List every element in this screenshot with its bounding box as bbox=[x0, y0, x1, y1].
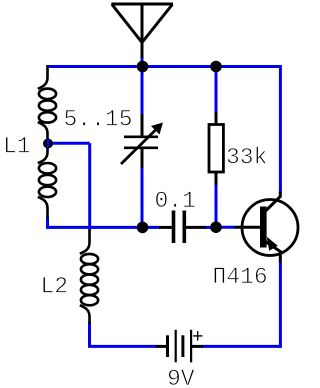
wire mid horizontal (L1 bottom to node) bbox=[48, 226, 143, 229]
capacitor C-var 5..15 (variable) bbox=[121, 114, 158, 168]
wire node B to base bbox=[216, 226, 235, 229]
wire antenna drop bbox=[141, 57, 144, 67]
wire top bus bbox=[48, 65, 280, 68]
wire node to C1 bbox=[142, 226, 160, 229]
wire tap stub over dot bbox=[47, 140, 50, 148]
svg-text:П416: П416 bbox=[213, 264, 268, 290]
battery plus sign bbox=[193, 331, 202, 340]
wire emitter down right vertical bbox=[279, 262, 282, 348]
node resistor top junction bbox=[210, 61, 222, 73]
wire resistor top bbox=[215, 67, 218, 114]
wire tap vertical to L2 bbox=[88, 143, 91, 230]
wire center vertical upper (bus to variable cap) bbox=[141, 67, 144, 116]
antenna bbox=[111, 4, 173, 58]
wire center vertical lower (variable cap to node) bbox=[141, 167, 144, 227]
node L1 tap dot bbox=[43, 139, 53, 149]
wire bottom right (battery to right) bbox=[202, 345, 280, 348]
svg-text:L1: L1 bbox=[3, 134, 31, 160]
wire C1 to node B bbox=[205, 226, 216, 229]
svg-text:9V: 9V bbox=[167, 366, 195, 388]
collector lead bbox=[266, 192, 281, 212]
svg-text:L2: L2 bbox=[41, 273, 69, 299]
wire right vertical (bus to collector) bbox=[279, 65, 282, 193]
node tank bottom junction bbox=[137, 222, 149, 234]
resistor R1 33k bbox=[215, 112, 218, 124]
base lead bbox=[235, 226, 261, 229]
emitter lead bbox=[266, 242, 281, 263]
battery GB1 9V bbox=[156, 330, 203, 363]
svg-text:33k: 33k bbox=[226, 144, 267, 170]
wire L1 bottom vertical bbox=[46, 217, 49, 229]
inductor L2 bbox=[80, 230, 98, 324]
transistor Q1 П416 bbox=[242, 200, 298, 256]
svg-text:5..15: 5..15 bbox=[64, 106, 133, 132]
inductor L1 (tapped coil) bbox=[38, 65, 56, 218]
svg-text:0.1: 0.1 bbox=[155, 188, 196, 214]
emitter arrow bbox=[267, 237, 278, 251]
wire L2 bottom vertical bbox=[88, 322, 91, 346]
wire bottom left (L2 to battery) bbox=[88, 345, 157, 348]
wire resistor bottom bbox=[215, 184, 218, 228]
capacitor C1 0.1 bbox=[159, 211, 206, 244]
node antenna junction bbox=[137, 61, 149, 73]
node base junction bbox=[210, 221, 222, 233]
wire L1 tap horizontal bbox=[48, 142, 90, 145]
